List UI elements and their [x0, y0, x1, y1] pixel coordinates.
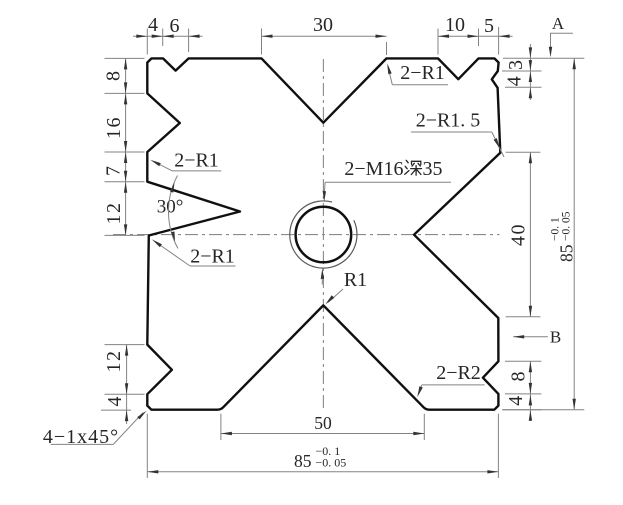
- left dimension arrows: [124, 58, 127, 235]
- top dimension arrows: [136, 35, 509, 38]
- bottom-left dimension ticks: [101, 345, 145, 424]
- svg-text:R1: R1: [344, 269, 367, 291]
- top dimension extension lines: [147, 27, 498, 55]
- svg-text:8: 8: [103, 71, 125, 81]
- dim text 85 -0.1 -0.05 (bottom): [294, 444, 346, 471]
- svg-text:30: 30: [313, 14, 333, 36]
- svg-text:6: 6: [170, 15, 180, 37]
- svg-text:85: 85: [294, 451, 312, 471]
- left dimension ticks: [105, 58, 145, 235]
- svg-text:−0. 05: −0. 05: [561, 211, 573, 241]
- svg-text:4: 4: [104, 397, 126, 407]
- svg-text:12: 12: [103, 350, 125, 373]
- top dimension line: [133, 35, 513, 37]
- svg-text:2−R1. 5: 2−R1. 5: [416, 110, 481, 132]
- hanzi shen (deep) drawn: [405, 160, 422, 175]
- tapped hole M16 thick circle: [296, 207, 352, 263]
- svg-text:85: 85: [557, 244, 577, 262]
- right 85 dimension extension lines: [503, 58, 584, 410]
- svg-text:B: B: [550, 328, 561, 347]
- svg-text:2−R1: 2−R1: [174, 150, 219, 172]
- thread crest thin 3/4 arc: [290, 201, 357, 268]
- right 85 arrows: [573, 58, 576, 410]
- centerline vertical: [322, 59, 324, 409]
- right 40 dimension ticks: [506, 152, 541, 316]
- bottom 85 dimension: [147, 414, 498, 478]
- top-right 3/4 dimension ticks: [502, 44, 542, 100]
- 30 degree arc: [168, 176, 178, 249]
- svg-text:7: 7: [103, 166, 125, 176]
- bottom-right 8/4 arrows: [529, 361, 532, 421]
- centerline horizontal: [113, 234, 500, 236]
- svg-text:10: 10: [445, 14, 465, 36]
- svg-text:2−R1: 2−R1: [190, 246, 235, 268]
- svg-text:30°: 30°: [157, 197, 184, 218]
- svg-text:40: 40: [508, 223, 530, 246]
- top-right 3/4 arrows: [529, 47, 532, 98]
- lower arrow of M16 circle: [321, 268, 324, 279]
- svg-text:A: A: [552, 14, 565, 33]
- svg-text:4: 4: [505, 396, 527, 406]
- svg-text:2−R2: 2−R2: [436, 362, 481, 384]
- bottom-right 8/4 dimension ticks: [502, 361, 541, 421]
- svg-text:8: 8: [508, 372, 530, 382]
- svg-text:3: 3: [505, 60, 527, 70]
- svg-text:50: 50: [314, 413, 332, 433]
- svg-text:16: 16: [103, 116, 125, 139]
- svg-text:4: 4: [504, 76, 526, 86]
- dim text 85 -0.1 -0.05 (right): [550, 211, 577, 262]
- bottom-left dimension arrows: [125, 345, 128, 422]
- svg-text:5: 5: [484, 15, 494, 37]
- right 40 arrows: [529, 152, 532, 316]
- svg-text:−0. 05: −0. 05: [316, 456, 347, 470]
- svg-text:2−M16: 2−M16: [344, 158, 403, 180]
- svg-text:2−R1: 2−R1: [400, 62, 445, 84]
- part outline: [147, 58, 500, 409]
- svg-text:12: 12: [103, 202, 125, 225]
- bottom 50 dimension: [221, 414, 424, 440]
- svg-text:35: 35: [423, 158, 443, 180]
- svg-text:4: 4: [148, 14, 158, 36]
